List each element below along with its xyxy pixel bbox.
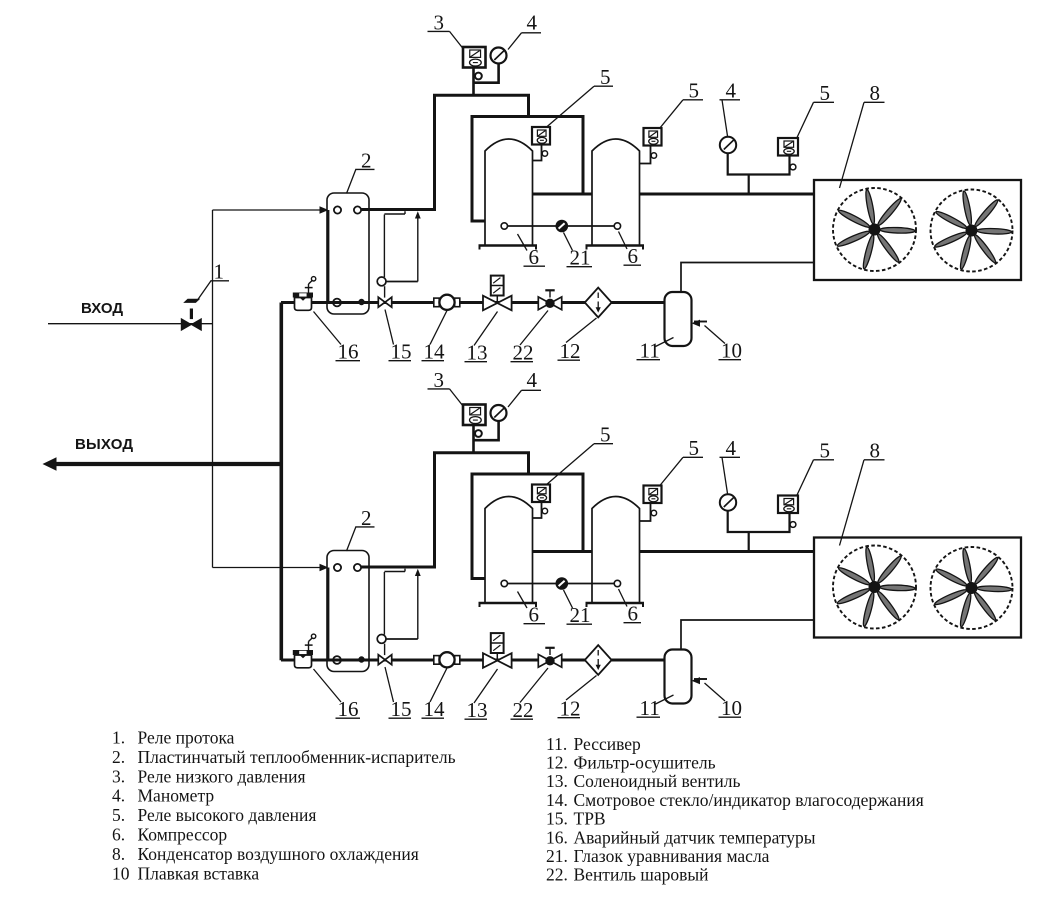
svg-text:4: 4 — [527, 368, 538, 392]
thermal expansion valve 15 (TRV) (circuit 2) — [378, 644, 391, 665]
plate heat exchanger / evaporator 2 (circuit 1) — [327, 193, 369, 314]
svg-text:6: 6 — [628, 602, 639, 626]
manometer 4 (circuit 2) — [491, 405, 507, 421]
node label 8 — [840, 439, 885, 546]
compressor 6 unit-2 (circuit 1) — [586, 139, 645, 250]
node label 13 — [465, 669, 498, 722]
svg-text:Компрессор: Компрессор — [138, 825, 228, 845]
fusible plug 10 (circuit 1) — [692, 320, 708, 327]
wire: suction line from evaporator to header (circuit 1) — [361, 95, 529, 209]
wire: instrument stem of pressure switch 3 (circuit 1) — [472, 68, 475, 96]
node label 13 — [465, 312, 498, 365]
wire: suction drop to compressor 2 (circuit 2) — [582, 473, 585, 552]
node label 2 — [347, 506, 375, 551]
emergency temperature sensor 16 (circuit 1) — [293, 277, 316, 311]
condenser fan 2 (circuit 1) — [931, 190, 1013, 272]
svg-text:11: 11 — [640, 696, 660, 720]
node label 3 — [428, 368, 464, 406]
shut-off/flow valve 1 — [181, 299, 201, 331]
svg-text:5: 5 — [820, 439, 831, 463]
node label 5 — [797, 81, 834, 138]
wire: TRV bulb and equalizer lines (circuit 2) — [384, 569, 417, 639]
svg-text:5.: 5. — [112, 805, 125, 825]
low pressure switch 3 (circuit 2) — [463, 405, 486, 426]
TRV sensing bulb circle (circuit 1) — [377, 277, 386, 286]
wire: oil equalization line (circuit 2) — [508, 583, 615, 585]
wire: switch 5 connection to compressor 2 (circuit 1) — [640, 146, 651, 164]
TRV sensing bulb circle (circuit 2) — [377, 635, 386, 644]
node label 14 — [422, 311, 448, 364]
svg-text:Реле высокого давления: Реле высокого давления — [138, 805, 317, 825]
wire: suction drop to compressor 1 (circuit 2) — [472, 473, 486, 579]
sight glass / moisture indicator 14 (circuit 2) — [434, 652, 460, 667]
evaporator port bottom-right (junction dot) (circuit 1) — [359, 299, 364, 304]
wire: discharge instrument manifold (circuit 2) — [728, 511, 790, 552]
svg-text:13: 13 — [467, 698, 488, 722]
svg-text:14: 14 — [424, 697, 446, 721]
node label 6 — [518, 592, 546, 627]
connection circle (circuit 2) — [651, 510, 656, 515]
svg-text:1.: 1. — [112, 728, 125, 748]
node label 5 — [546, 65, 613, 128]
high pressure switch 5 on compressor 1 (circuit 2) — [532, 485, 550, 503]
wire: chilled-water inlet line to evaporator (circuit 2) — [213, 567, 323, 569]
solenoid valve 13 (circuit 2) — [483, 633, 512, 668]
oil sight glass 21 (circuit 1) — [556, 220, 567, 231]
fusible plug 10 (circuit 2) — [692, 677, 708, 684]
wire: condenser outlet to receiver (circuit 1) — [681, 263, 814, 294]
manometer 4 (circuit 1) — [491, 48, 507, 64]
svg-text:12: 12 — [560, 697, 581, 721]
wire: discharge instrument manifold (circuit 1) — [728, 153, 790, 194]
evaporator port bottom-right (junction dot) (circuit 2) — [359, 657, 364, 662]
manometer 4 on discharge (circuit 2) — [720, 494, 736, 510]
node label 8 — [840, 81, 885, 188]
svg-text:Реле низкого давления: Реле низкого давления — [138, 766, 306, 786]
svg-text:5: 5 — [689, 436, 700, 460]
emergency temperature sensor 16 (circuit 2) — [293, 634, 316, 668]
evaporator port bottom-left (circuit 2) — [333, 656, 341, 664]
node label 3 — [428, 11, 464, 49]
svg-text:22.: 22. — [546, 865, 568, 885]
wire: TRV bulb and equalizer lines (circuit 1) — [384, 211, 417, 281]
condenser fan 2 (circuit 2) — [931, 547, 1013, 629]
wire: suction header (circuit 1) — [472, 115, 583, 118]
wire: condenser outlet to receiver (circuit 2) — [681, 620, 814, 651]
receiver 11 (circuit 2) — [665, 650, 692, 704]
node label 15 — [385, 310, 412, 364]
svg-text:Манометр: Манометр — [138, 786, 215, 806]
node label 5 — [660, 436, 704, 486]
svg-text:13: 13 — [467, 341, 488, 365]
svg-text:16.: 16. — [546, 827, 568, 847]
wire: switch 5 connection to compressor 1 (circuit 1) — [533, 145, 542, 161]
node label 4 — [720, 79, 741, 137]
node label 4 — [720, 436, 741, 494]
svg-text:12: 12 — [560, 339, 581, 363]
svg-text:21.: 21. — [546, 846, 568, 866]
svg-text:21: 21 — [570, 246, 591, 270]
svg-text:8: 8 — [870, 439, 881, 463]
svg-text:22: 22 — [513, 698, 534, 722]
air cooled condenser 8 (circuit 1) — [814, 180, 1021, 280]
oil port circle compressor 2 (circuit 1) — [614, 223, 620, 229]
svg-text:8: 8 — [870, 81, 881, 105]
svg-text:5: 5 — [820, 81, 831, 105]
node label 16 — [314, 312, 361, 364]
svg-text:Аварийный датчик температуры: Аварийный датчик температуры — [574, 827, 816, 847]
svg-text:6: 6 — [529, 245, 540, 269]
svg-text:Глазок уравнивания масла: Глазок уравнивания масла — [574, 846, 770, 866]
node label 14 — [422, 668, 448, 721]
svg-text:ТРВ: ТРВ — [574, 809, 606, 829]
filter drier 12 (circuit 2) — [585, 645, 612, 675]
high pressure switch 5 on compressor 2 (circuit 1) — [644, 128, 662, 146]
svg-text:11.: 11. — [546, 734, 567, 754]
wire: switch 5 connection to compressor 1 (circuit 2) — [533, 502, 542, 518]
svg-text:Смотровое стекло/индикатор вла: Смотровое стекло/индикатор влагосодержан… — [574, 790, 924, 810]
svg-text:Фильтр-осушитель: Фильтр-осушитель — [574, 753, 716, 773]
wire: discharge tie between compressors (circuit 1) — [533, 193, 593, 196]
low pressure switch 3 (circuit 1) — [463, 47, 486, 68]
node label 1 — [198, 260, 230, 301]
wire: chilled-water inlet line to evaporator (circuit 1) — [213, 209, 323, 211]
wire: liquid line (circuit 2) — [281, 659, 665, 662]
wire: suction drop to compressor 2 (circuit 1) — [582, 115, 585, 194]
node label 12 — [558, 318, 597, 363]
svg-text:2.: 2. — [112, 747, 125, 767]
evaporator port bottom-left (circuit 1) — [333, 299, 341, 307]
evaporator port top-left (circuit 1) — [334, 206, 341, 213]
connection circle on stem (circuit 2) — [475, 430, 482, 437]
svg-text:4: 4 — [726, 436, 737, 460]
oil port circle compressor 1 (circuit 1) — [501, 223, 507, 229]
equalizer arrow into suction line (circuit 2) — [415, 569, 421, 576]
wire: suction drop to compressor 1 (circuit 1) — [472, 115, 486, 221]
ball valve 22 (circuit 2) — [538, 648, 561, 667]
svg-text:Рессивер: Рессивер — [574, 734, 642, 754]
svg-text:Вентиль шаровый: Вентиль шаровый — [574, 865, 709, 885]
node label 5 — [546, 423, 613, 486]
svg-text:ВХОД: ВХОД — [81, 300, 123, 317]
svg-text:4: 4 — [527, 11, 538, 35]
node label 21 — [564, 233, 593, 270]
plate heat exchanger / evaporator 2 (circuit 2) — [327, 551, 369, 672]
high pressure switch 5 on discharge (circuit 2) — [778, 496, 798, 514]
node label 15 — [385, 667, 412, 721]
compressor 6 unit-1 (circuit 2) — [479, 497, 538, 608]
wire: suction header (circuit 2) — [472, 473, 583, 476]
svg-text:4: 4 — [726, 79, 737, 103]
wire: liquid line (circuit 1) — [281, 301, 665, 304]
svg-text:3.: 3. — [112, 766, 125, 786]
manometer 4 on discharge (circuit 1) — [720, 137, 736, 153]
svg-text:Реле протока: Реле протока — [138, 728, 235, 748]
svg-text:ВЫХОД: ВЫХОД — [75, 436, 133, 453]
svg-text:21: 21 — [570, 603, 591, 627]
svg-text:10: 10 — [112, 863, 130, 883]
node label 10 — [705, 326, 743, 363]
ball valve 22 (circuit 1) — [538, 290, 561, 309]
connection circle (circuit 1) — [542, 151, 547, 156]
air cooled condenser 8 (circuit 2) — [814, 538, 1021, 638]
node label 12 — [558, 676, 597, 721]
node label 6 — [619, 589, 642, 626]
node label 5 — [797, 439, 834, 496]
wire: gauge 4 stem and joint (circuit 2) — [474, 421, 499, 440]
svg-text:14.: 14. — [546, 790, 568, 810]
svg-text:1: 1 — [214, 260, 225, 284]
node label 11 — [637, 338, 674, 363]
compressor 6 unit-1 (circuit 1) — [479, 139, 538, 250]
flow arrow into evaporator (circuit 2) — [320, 564, 329, 571]
oil sight glass 21 (circuit 2) — [556, 578, 567, 589]
connection circle (circuit 1) — [790, 164, 796, 170]
legend list — [112, 728, 924, 885]
condenser fan 1 (circuit 1) — [833, 188, 916, 271]
wire: oil equalization line (circuit 1) — [508, 225, 615, 227]
svg-text:6.: 6. — [112, 825, 125, 845]
wire: instrument stem of pressure switch 3 (circuit 2) — [472, 425, 475, 453]
oil port circle compressor 2 (circuit 2) — [614, 580, 620, 586]
thermal expansion valve 15 (TRV) (circuit 1) — [378, 286, 391, 307]
node label 22 — [511, 668, 549, 722]
wire: discharge tie between compressors (circuit 2) — [533, 550, 593, 553]
flow arrow into evaporator (circuit 1) — [320, 206, 329, 213]
evaporator port top-right (circuit 2) — [354, 564, 361, 571]
node label 4 — [508, 368, 541, 407]
svg-text:6: 6 — [529, 603, 540, 627]
wire: water inlet line — [48, 323, 213, 325]
svg-text:Соленоидный вентиль: Соленоидный вентиль — [574, 771, 741, 791]
connection circle (circuit 2) — [790, 522, 796, 528]
connection circle (circuit 2) — [542, 508, 547, 513]
svg-text:5: 5 — [600, 65, 611, 89]
wire: suction line from evaporator to header (circuit 2) — [361, 453, 529, 567]
high pressure switch 5 on compressor 1 (circuit 1) — [532, 127, 550, 145]
svg-text:11: 11 — [640, 339, 660, 363]
svg-text:13.: 13. — [546, 771, 568, 791]
solenoid valve 13 (circuit 1) — [483, 276, 512, 311]
wire: discharge line to condenser (circuit 2) — [640, 550, 816, 553]
svg-text:12.: 12. — [546, 753, 568, 773]
svg-text:22: 22 — [513, 341, 534, 365]
svg-text:5: 5 — [600, 423, 611, 447]
receiver 11 (circuit 1) — [665, 292, 692, 346]
compressor 6 unit-2 (circuit 2) — [586, 497, 645, 608]
svg-text:Пластинчатый теплообменник-исп: Пластинчатый теплообменник-испаритель — [138, 747, 456, 767]
node label 16 — [314, 669, 361, 721]
connection circle on stem (circuit 1) — [475, 73, 482, 80]
node label 21 — [564, 590, 593, 627]
node label 5 — [660, 79, 704, 129]
svg-text:Конденсатор воздушного охлажде: Конденсатор воздушного охлаждения — [138, 844, 419, 864]
wire: switch 5 connection to compressor 2 (circuit 2) — [640, 503, 651, 521]
equalizer arrow into suction line (circuit 1) — [415, 211, 421, 218]
svg-text:Плавкая вставка: Плавкая вставка — [138, 863, 260, 883]
connection circle (circuit 1) — [651, 153, 656, 158]
condenser fan 1 (circuit 2) — [833, 546, 916, 629]
node label 2 — [347, 149, 375, 194]
svg-text:14: 14 — [424, 340, 446, 364]
svg-text:4.: 4. — [112, 786, 125, 806]
wire: outlet header with arrow — [43, 457, 282, 470]
high pressure switch 5 on compressor 2 (circuit 2) — [644, 486, 662, 504]
evaporator port top-left (circuit 2) — [334, 564, 341, 571]
node label 4 — [508, 11, 541, 50]
high pressure switch 5 on discharge (circuit 1) — [778, 138, 798, 156]
svg-text:8.: 8. — [112, 844, 125, 864]
svg-text:6: 6 — [628, 244, 639, 268]
node label 11 — [637, 695, 674, 720]
wire: inlet riser to both circuits — [212, 210, 214, 568]
node label 6 — [619, 232, 642, 269]
node label 10 — [705, 683, 743, 720]
node label 22 — [511, 311, 549, 365]
svg-text:5: 5 — [689, 79, 700, 103]
wire: discharge line to condenser (circuit 1) — [640, 193, 816, 196]
wire: gauge 4 stem and joint (circuit 1) — [474, 64, 499, 83]
node label 6 — [518, 234, 546, 269]
evaporator port top-right (circuit 1) — [354, 206, 361, 213]
oil port circle compressor 1 (circuit 2) — [501, 580, 507, 586]
filter drier 12 (circuit 1) — [585, 288, 612, 318]
sight glass / moisture indicator 14 (circuit 1) — [434, 295, 460, 310]
svg-text:15.: 15. — [546, 809, 568, 829]
wire: outlet collector riser — [279, 303, 283, 661]
